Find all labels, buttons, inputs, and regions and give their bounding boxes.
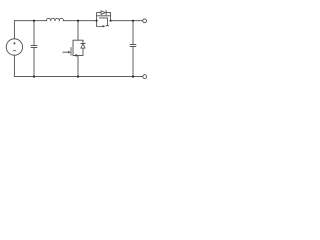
wire: Q1 source lead down bbox=[77, 55, 79, 76]
wire: input cap bottom lead bbox=[33, 47, 35, 76]
wire: source bottom lead down bbox=[13, 55, 15, 76]
diode D2 cathode bar bbox=[105, 10, 107, 14]
Q2 left riser base dot bbox=[96, 20, 98, 22]
transistor Q1 (low-side MOSFET) bbox=[63, 40, 86, 57]
inductor L bbox=[47, 18, 64, 20]
capacitor C2 plates bbox=[130, 45, 136, 47]
node A junction dot input cap bbox=[33, 20, 35, 22]
Q1 source tie bbox=[73, 54, 83, 56]
node B junction dot switch node bbox=[77, 20, 79, 22]
Q2 gate drive line bbox=[97, 21, 103, 27]
wire: output cap top lead bbox=[132, 21, 134, 45]
voltage source Vg bbox=[6, 39, 22, 55]
wire: input cap top lead bbox=[33, 21, 35, 46]
Q2 gate drive arrowhead bbox=[103, 25, 106, 28]
wire: D2 to right riser bbox=[106, 12, 111, 14]
node D junction dot input cap bottom bbox=[33, 75, 35, 77]
Q1 gate plate bbox=[70, 48, 72, 56]
wire: top rail left segment bbox=[14, 20, 46, 22]
minus sign inside source bbox=[13, 50, 16, 52]
Q1 channel bar bbox=[72, 45, 74, 55]
wire: top rail right segment bbox=[111, 20, 143, 22]
wire: Q1 drain lead down bbox=[77, 21, 79, 40]
wire: output cap bottom lead bbox=[132, 46, 134, 76]
Q2 gate plate bbox=[100, 17, 108, 19]
node F junction dot output cap bottom bbox=[132, 75, 134, 77]
Q2 gate lead down bbox=[106, 18, 108, 26]
wire: top rail middle segment bbox=[64, 20, 97, 22]
Q2 right riser base dot bbox=[110, 20, 112, 22]
wire: bottom rail bbox=[14, 76, 142, 78]
transistor Q2 (high-side MOSFET, horizontal) bbox=[96, 10, 112, 27]
Q2 channel bar bbox=[97, 15, 111, 17]
Q2 right riser bbox=[110, 13, 112, 21]
capacitor C1 plates bbox=[31, 46, 37, 48]
Q1 drain tie bbox=[73, 40, 83, 45]
diode D2 triangle (body diode of Q2) bbox=[101, 11, 105, 15]
Q1 gate lead bbox=[63, 51, 69, 53]
node E junction dot Q1 source bottom bbox=[77, 75, 79, 77]
Q1 body arrow bbox=[74, 54, 77, 57]
node C junction dot output cap top bbox=[132, 20, 134, 22]
wire: source top lead up to top rail corner bbox=[13, 21, 15, 39]
plus sign inside source bbox=[14, 42, 16, 44]
Q2 left riser bbox=[97, 13, 101, 21]
Q1 gate arrowhead bbox=[68, 51, 71, 54]
terminal -out bbox=[143, 75, 147, 79]
diode D1 triangle bbox=[81, 44, 85, 48]
diode D1 (body diode of Q1) bbox=[81, 40, 86, 55]
terminal +out bbox=[143, 19, 147, 23]
